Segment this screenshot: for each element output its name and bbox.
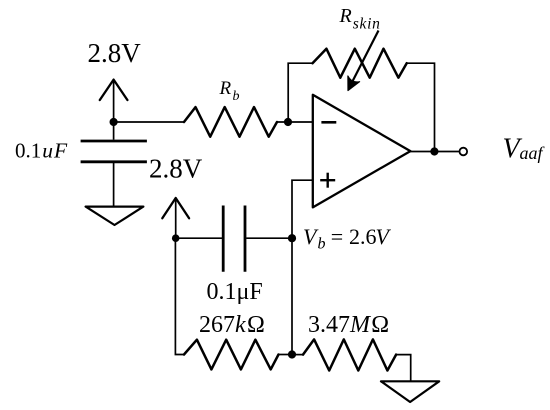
- output terminal (open circle): [460, 148, 468, 156]
- ground (right): [381, 381, 439, 402]
- svg-text:2.6: 2.6: [349, 224, 377, 249]
- wire supply node to capacitor C2: [176, 237, 222, 239]
- resistor 3.47M: [303, 339, 396, 370]
- svg-text:0.1μF: 0.1μF: [207, 279, 263, 305]
- svg-text:R: R: [219, 78, 232, 99]
- svg-text:b: b: [233, 89, 240, 104]
- resistor Rskin (variable): [313, 49, 407, 78]
- resistor 267k: [184, 340, 279, 370]
- svg-text:3.47: 3.47: [308, 312, 350, 338]
- label 0.1uF (C2 value): [207, 279, 263, 305]
- wire feedback left (node up and over): [288, 63, 312, 122]
- capacitor C2 0.1uF: [223, 206, 245, 272]
- supply label 2.8V (middle): [149, 154, 203, 184]
- svg-text:=: =: [331, 224, 343, 249]
- svg-text:0.1: 0.1: [15, 139, 41, 163]
- svg-text:aaf: aaf: [520, 143, 546, 163]
- svg-text:2.8V: 2.8V: [149, 154, 203, 184]
- svg-text:k: k: [235, 312, 246, 338]
- wire supply node down to 267k resistor: [175, 238, 184, 354]
- svg-text:Ω: Ω: [371, 312, 389, 338]
- node A (top-left junction): [110, 118, 118, 126]
- label 3.47MOhm: [308, 312, 389, 338]
- node divider junction: [288, 350, 296, 358]
- label Vb = 2.6V: [303, 224, 392, 253]
- node bottom supply: [172, 234, 180, 242]
- wire node A down to capacitor C1: [113, 122, 115, 140]
- wire Rb to inverting input node: [277, 121, 313, 123]
- node Vb: [288, 234, 296, 242]
- Rskin wiper arrow: [348, 31, 379, 91]
- wire divider node to 3.47M resistor: [292, 354, 303, 356]
- node inverting input: [284, 118, 292, 126]
- op-amp plus sign: [320, 173, 335, 188]
- supply arrow (top): [100, 80, 128, 122]
- svg-text:uF: uF: [42, 139, 68, 163]
- capacitor C1 0.1uF: [81, 141, 147, 162]
- node output: [430, 147, 438, 155]
- svg-text:2.8V: 2.8V: [88, 38, 142, 68]
- label 267kOhm: [199, 312, 265, 338]
- wire 3.47M to ground (right): [396, 355, 411, 382]
- wire 267k to divider node: [279, 354, 293, 356]
- label 0.1uF (C1 value): [15, 139, 68, 163]
- ground (left): [86, 207, 144, 225]
- resistor Rb: [184, 107, 277, 137]
- wire op-amp output: [410, 151, 459, 153]
- wire Vb node down to divider node: [291, 238, 293, 354]
- supply label 2.8V (top): [88, 38, 142, 68]
- svg-text:skin: skin: [353, 15, 381, 32]
- label Rskin: [339, 5, 381, 33]
- label Rb: [219, 78, 240, 104]
- wire plus input (left and down to Vb node): [292, 180, 313, 238]
- op-amp U1: [313, 95, 411, 208]
- wire C2 to Vb node: [246, 237, 292, 239]
- wire feedback right (over and down to output): [407, 63, 435, 151]
- svg-text:267: 267: [199, 312, 235, 338]
- supply arrow (bottom): [162, 198, 189, 238]
- svg-text:M: M: [349, 312, 372, 338]
- svg-text:Ω: Ω: [247, 312, 265, 338]
- svg-text:R: R: [339, 5, 352, 27]
- wire C1 to ground: [113, 163, 115, 207]
- op-amp minus sign: [321, 121, 336, 124]
- svg-text:b: b: [318, 236, 326, 253]
- label Vaaf: [503, 134, 546, 165]
- wire node A to resistor Rb: [114, 121, 184, 123]
